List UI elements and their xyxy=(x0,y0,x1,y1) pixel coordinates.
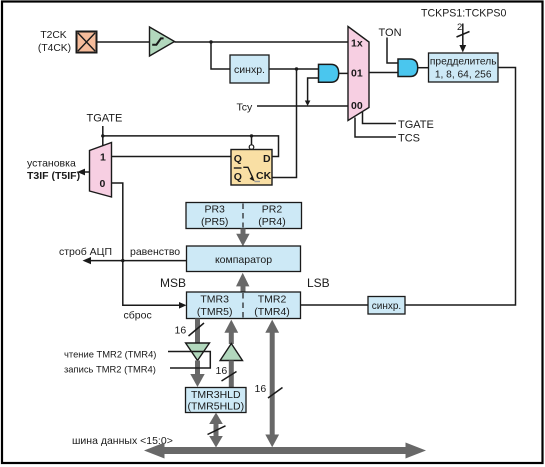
svg-text:0: 0 xyxy=(100,178,106,190)
svg-text:(TMR5HLD): (TMR5HLD) xyxy=(188,401,245,413)
svg-text:1, 8, 64, 256: 1, 8, 64, 256 xyxy=(435,70,492,81)
data bus double arrow xyxy=(144,443,426,459)
svg-text:TCKPS1:TCKPS0: TCKPS1:TCKPS0 xyxy=(421,8,506,20)
box comparator xyxy=(187,246,301,272)
svg-text:LSB: LSB xyxy=(307,276,330,290)
wire mux2 input 0 down to reset xyxy=(112,183,183,305)
svg-text:предделитель: предделитель xyxy=(430,57,497,68)
svg-text:компаратор: компаратор xyxy=(215,254,272,266)
junction dot xyxy=(209,40,212,43)
svg-text:1: 1 xyxy=(100,152,106,164)
wire junction down into sync1 xyxy=(211,42,230,69)
svg-text:Q: Q xyxy=(234,171,242,183)
write buffer triangle (up) xyxy=(220,344,242,361)
svg-text:чтение TMR2 (TMR4): чтение TMR2 (TMR4) xyxy=(64,349,156,360)
svg-text:установка: установка xyxy=(27,158,76,170)
box TMR3HLD xyxy=(186,388,247,413)
svg-text:CK: CK xyxy=(256,170,272,182)
wire sync2 to TMR xyxy=(301,304,369,306)
svg-text:16: 16 xyxy=(216,365,228,377)
svg-text:TGATE: TGATE xyxy=(87,113,123,125)
svg-text:01: 01 xyxy=(351,68,363,80)
wire TGATE horizontal to D xyxy=(103,136,279,157)
thick arrow PR down to comparator xyxy=(236,229,249,247)
mux2 trapezoid xyxy=(90,143,112,198)
thick read path TMR3 down xyxy=(195,319,200,344)
wire down to FF top bubble xyxy=(251,136,253,145)
svg-text:TMR3HLD: TMR3HLD xyxy=(191,389,241,401)
svg-text:(PR5): (PR5) xyxy=(201,216,228,228)
wire AND1 lower input tap with down arrow onto Tcy xyxy=(308,78,319,102)
mux1 trapezoid xyxy=(348,27,369,121)
svg-text:(TMR5): (TMR5) xyxy=(197,306,233,318)
wire AND1 output to mux1 01 input xyxy=(339,72,348,74)
bus-width slash xyxy=(208,426,226,435)
wire equal to ADC strobe xyxy=(88,260,186,262)
junction dot xyxy=(121,259,124,262)
svg-text:Tcy: Tcy xyxy=(237,102,254,114)
box sync1 xyxy=(230,55,269,83)
junction dot xyxy=(295,67,298,70)
wire Schmitt output to mux1 1x input xyxy=(175,41,349,43)
svg-text:равенство: равенство xyxy=(130,246,180,258)
svg-text:TMR3: TMR3 xyxy=(200,294,229,306)
bus-width slash xyxy=(457,32,470,38)
flip-flop U3 xyxy=(231,150,272,186)
box TMR timer register xyxy=(187,292,301,319)
wire Tcy to mux1 00 input xyxy=(257,105,348,107)
svg-text:TGATE: TGATE xyxy=(398,119,434,131)
bus-width slash xyxy=(222,372,237,382)
svg-text:MSB: MSB xyxy=(160,276,186,290)
svg-text:1x: 1x xyxy=(351,37,363,49)
box sync2 xyxy=(368,297,405,315)
thick read path to TMR3HLD xyxy=(190,361,204,388)
svg-text:16: 16 xyxy=(175,325,187,337)
wire TCKPS arrow into prescaler xyxy=(462,24,464,47)
wire mux1 select TCS xyxy=(355,118,396,138)
box prescaler xyxy=(429,53,499,82)
svg-text:(T4CK): (T4CK) xyxy=(38,43,71,54)
wire AND2 output to prescaler xyxy=(418,67,429,69)
wire down to flip-flop CK xyxy=(272,69,297,178)
wire X-box to Schmitt xyxy=(97,41,150,43)
label T2CK (T4CK) xyxy=(38,30,71,54)
svg-text:Q: Q xyxy=(234,153,242,165)
bus-width slash xyxy=(189,323,205,336)
Schmitt trigger buffer xyxy=(150,27,175,56)
svg-text:синхр.: синхр. xyxy=(234,64,265,76)
svg-text:PR2: PR2 xyxy=(262,204,283,216)
thick double arrow TMR3HLD to bus xyxy=(209,413,223,448)
svg-text:(TMR4): (TMR4) xyxy=(254,306,290,318)
thick write arrow into TMR bottom xyxy=(224,320,238,344)
inverter bubble xyxy=(249,145,254,150)
wire read enable xyxy=(168,352,210,369)
svg-text:2: 2 xyxy=(457,22,462,33)
svg-text:D: D xyxy=(263,153,271,165)
svg-text:TON: TON xyxy=(379,27,402,39)
read buffer triangle (down) xyxy=(186,343,210,361)
svg-text:16: 16 xyxy=(255,383,267,395)
svg-text:TMR2: TMR2 xyxy=(258,294,287,306)
svg-text:строб АЦП: строб АЦП xyxy=(59,246,112,258)
thick write path from TMR3HLD xyxy=(229,361,234,388)
wire sync1 output to AND1 xyxy=(269,68,319,70)
svg-text:сброс: сброс xyxy=(124,310,152,322)
svg-text:(PR4): (PR4) xyxy=(258,216,285,228)
svg-text:синхр.: синхр. xyxy=(372,301,401,312)
AND gate U2 xyxy=(398,59,418,77)
box PR period register xyxy=(186,203,302,229)
svg-text:T3IF (T5IF): T3IF (T5IF) xyxy=(27,170,80,182)
wire prescaler output down to sync2 xyxy=(405,68,516,306)
svg-text:запись TMR2 (TMR4): запись TMR2 (TMR4) xyxy=(64,364,156,375)
junction dot xyxy=(101,134,104,137)
wire mux2 output arrow xyxy=(80,171,90,173)
svg-text:TCS: TCS xyxy=(398,133,420,145)
wire mux1 select TGATE xyxy=(363,112,397,124)
svg-text:PR3: PR3 xyxy=(204,204,225,216)
wire TON to AND2 top input xyxy=(387,38,398,64)
svg-text:00: 00 xyxy=(351,100,363,112)
AND gate U1 xyxy=(319,64,339,82)
svg-text:T2CK: T2CK xyxy=(40,30,66,41)
bus-width slash xyxy=(268,388,283,399)
thick arrow TMR up to comparator xyxy=(236,273,249,292)
input pad X-box xyxy=(77,32,97,53)
wire TGATE vertical into mux2 select xyxy=(102,126,104,148)
wire FF Q to mux2 input 1 xyxy=(112,156,232,158)
junction dot xyxy=(250,134,253,137)
wire mux1 output to AND2 xyxy=(369,72,398,74)
thick double arrow TMR2 to bus xyxy=(265,320,279,448)
